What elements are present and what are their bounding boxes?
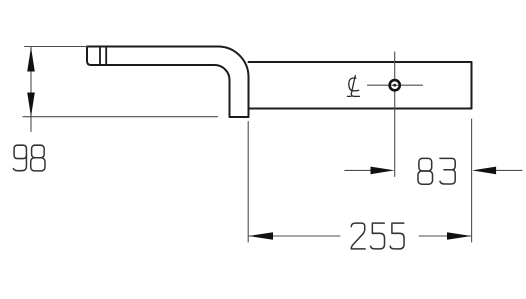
shank bar rectangle — [249, 62, 472, 109]
hole horizontal centerline — [368, 84, 423, 86]
digit 5 second — [390, 223, 404, 249]
dim 98 arrow down — [27, 93, 35, 117]
digit 2 — [351, 223, 365, 249]
dim 255 dimension line right segment — [419, 235, 471, 237]
dim 98 arrow up — [27, 47, 35, 71]
tube end tick 1 — [99, 47, 101, 66]
dim 98 bottom extension line — [23, 116, 218, 118]
digit 8 — [418, 158, 433, 184]
dim 98 text — [13, 145, 45, 171]
dim 255 arrow right — [447, 232, 471, 240]
hole H1 center tick — [392, 84, 398, 86]
hole H1 ring — [390, 80, 400, 90]
dim 255 text — [351, 223, 404, 249]
dim 83 leader line left — [345, 169, 371, 171]
digit 9 — [13, 145, 26, 171]
dim 83 arrow right — [472, 167, 496, 175]
centerline symbol — [347, 76, 359, 97]
hole H1 center dot — [393, 84, 396, 87]
dim 255 left extension line — [247, 122, 249, 243]
dim 98 top extension line — [25, 46, 88, 48]
dim 98 dimension line — [30, 47, 32, 131]
dim 83 leader line right — [496, 169, 522, 171]
dim 83 text — [418, 158, 455, 184]
digit 5 first — [371, 223, 385, 249]
digit 3 — [440, 158, 455, 184]
digit 8 — [31, 145, 45, 171]
tube end tick 2 — [105, 47, 107, 66]
dim 255 dimension line left segment — [249, 235, 340, 237]
dim 83 arrow left — [371, 167, 395, 175]
bent square-tube bar outline — [87, 47, 249, 118]
dim 255 arrow left — [249, 232, 273, 240]
dim 255 right extension line — [471, 119, 473, 242]
hole vertical centerline — [394, 52, 396, 177]
